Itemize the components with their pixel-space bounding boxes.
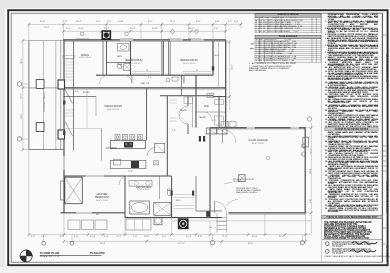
window break master bedroom south wall [76,212,92,213]
grid bubble left lower [17,137,29,141]
window schedule title band [255,14,321,17]
dark jambs west stair doors [63,101,66,136]
caption floor plan title [40,251,60,255]
porch dark post on house side lower [58,130,65,139]
window sill west wall [63,56,75,59]
wall: top exterior (heavy) [63,40,225,42]
dimension line: top secondary [63,30,225,32]
bath fixtures: vanity with sink [118,44,130,52]
master bath vanity two sinks [129,181,152,187]
porch dark post on house side upper [58,80,65,89]
door tag circle east wall 1 [302,144,306,148]
wall: east wing hall south [160,95,213,97]
dishwasher box [114,159,121,165]
door arc: garage entry from mudroom [223,130,237,144]
wall: south of bath block [125,217,222,219]
window schedule title [255,14,321,16]
window tag hexagon top wall [125,32,129,36]
north arrow symbol [19,249,33,263]
small diamond equipment box [154,217,162,225]
pantry east wall with door opening [187,96,189,134]
notes lower section header band [322,215,383,219]
grid bubble bottom A [42,235,46,246]
window breaks top wall [120,39,204,40]
notes column mid section text [325,131,379,212]
attic fan dark square symbol [102,31,111,40]
window sill marks on top wall [76,38,201,40]
pantry shelf lines [170,100,178,121]
dim text top row [76,21,82,23]
room label bedroom 2 [121,59,147,65]
wall: porch top thin extension [29,40,64,42]
room label laundry [199,117,206,119]
door schedule grid [255,39,321,63]
wall: kitchen east [166,96,168,176]
stair treads west vestibule [65,59,73,116]
dark door jamb garage sw [206,211,209,217]
title strip separator line [381,13,383,262]
door leaf diagonal in west vestibule (lower) [65,122,73,137]
wall: master suite north [64,175,172,177]
caption plan number [90,251,105,255]
title strip rotated text upper [386,22,389,82]
window box on garage east wall [303,137,309,147]
notes lower section divider line [322,239,383,241]
notes column upper header text [325,128,379,131]
wall: garage north (heavy) [210,128,306,129]
signature item 1 squiggle [352,242,377,245]
laundry keyed note text [233,179,257,183]
bedroom2 closet east wall pair [168,41,170,75]
door arc: garage person door [215,202,227,213]
dimension ticks right [310,127,313,215]
steps below bath block [126,219,151,230]
laundry sink box [207,93,214,97]
wall: west exterior outer line [63,40,65,213]
wall: corridor north (bedroom fronts) [96,74,213,76]
signature item 2 squiggle [350,250,376,253]
patio boxes below master bedroom [68,220,107,230]
porch: bottom edge [29,149,64,151]
wall: kitchen west partial [101,129,103,161]
dark door jamb pair 1 (bath entry) [171,191,173,196]
grid bubble left upper [17,82,29,86]
refrigerator box with diagonal [155,143,165,152]
bath fixtures: shower with X lower [124,64,131,71]
kitchen sink small [153,161,158,165]
leader line garage note [227,199,238,205]
AC condenser dark square (concentric) [178,218,189,229]
room label bedroom 3 [176,59,202,65]
door arc: laundry [204,112,212,120]
wall: west vestibule inner line [73,41,75,150]
door tag circle east wing [307,117,311,121]
signature item 2 text [332,249,372,255]
dimension line: right vertical [306,123,312,235]
dim text right [310,168,312,174]
kitchen south counter [110,160,145,168]
bath fixtures: toilet lower [118,63,122,69]
wall: mudroom west lower [195,176,197,211]
room label master bath [135,187,153,191]
closet boxes at pantry top [184,97,193,104]
dim text bottom row [41,236,47,238]
dark door jambs at stair/mud [199,136,205,142]
caption scale text [40,256,60,258]
range dark box on south counter [131,161,139,168]
wall: garage south (heavy) [229,213,306,214]
door tag circle east wall 2 [302,152,306,156]
wall: long mid horizontal (corridor south) [63,88,225,89]
door jamb marks bedroom3 [212,66,214,70]
window breaks garage north wall [247,127,299,128]
fireplace hatched box on west wall [61,177,83,204]
dimension ticks upper-right [228,41,231,98]
window schedule grid [255,17,321,33]
notes column upper section text [325,13,379,127]
door schedule title band [255,35,321,38]
kitchen peninsula arc [147,148,155,156]
window tag circles top wall extra [80,30,198,36]
garage floor drain circle [266,156,269,159]
wall: foyer lower horizontal [63,95,96,97]
door leaf diagonal in west vestibule (upper) [65,90,73,104]
kitchen island counter [110,140,145,148]
mudroom bench boxes [215,100,224,126]
lower owner paragraph text [324,222,376,241]
wall: hall bath east [171,176,173,218]
dimension line: top primary [29,22,241,41]
interior dim marks [75,91,79,93]
room label w/d [204,105,209,108]
schedule footnote 1 [249,63,296,65]
wall: garage west vertical [209,128,211,218]
wall: bath inner horizontal [107,62,131,64]
wall: mud hall east [218,96,220,128]
dim text left [21,58,23,64]
washer dryer boxes [207,128,228,134]
porch post lower [36,123,44,132]
door schedule row text [255,39,320,62]
lower band header text [322,216,383,219]
window schedule row text [255,17,320,32]
laundry south jog line [205,133,228,135]
kitchen north counter edge faint [64,128,102,130]
page margin shading bottom [0,267,390,273]
equipment boxes at garage north entry [221,122,236,128]
water heater box with X in garage [239,175,245,182]
wall: foyer chase double vertical [103,41,107,75]
room label great room [100,105,126,111]
wall: laundry west vertical [195,75,197,127]
window break great room west wall [64,156,65,170]
grid bubble bottom D [300,235,304,245]
porch: deck line 1 [43,41,45,150]
dimension line: left vertical [23,41,29,150]
wall: east exterior upper [225,40,227,128]
notes column left boundary line [321,13,323,262]
hall bath fixtures east wing [166,75,181,96]
room label master bedroom [88,193,116,202]
water closet wall [159,176,161,199]
page margin shading left [0,0,5,273]
porch post upper [36,80,44,89]
title strip rotated text lower [386,173,389,213]
caption underline [40,254,102,256]
window tag circle 2 [171,30,175,34]
porch label vertical [44,93,46,112]
schedule footnote 2 [249,66,293,72]
porch: deck line 2 [55,41,57,150]
signature item 1 text [332,242,372,248]
wall: bath east vertical [130,41,132,75]
wall: kitchen great-room divider [146,88,148,141]
porch east edge line [60,40,62,150]
wall: step master bedroom south [124,213,126,218]
pantry east inner line [192,96,194,128]
pantry double doors [179,106,188,124]
dimension line: bottom secondary [64,240,306,242]
hall room tag [141,83,149,85]
grid bubble bottom B [70,235,74,246]
wall: mudroom divider horizontal [196,111,226,113]
signature item 2 bullet circle [326,250,330,254]
patio door opening in master suite north wall [86,176,104,177]
fine print line bottom right [324,256,380,258]
extra dim text blobs [40,21,45,23]
signature item 1 bullet circle [326,242,330,246]
wall: hall bath west [124,176,126,213]
foyer stair edge vertical [95,96,97,116]
door arc: bedroom2 entry [124,75,132,83]
wall: garage east vertical (heavy) [304,128,306,214]
porch: left edge vertical [28,41,30,150]
title strip divider ticks [382,35,386,244]
room label kitchen [106,147,117,150]
dark door jamb pair 2 (wic entry) [192,191,194,196]
wic shelving lines [174,195,195,209]
room label garage [243,139,273,145]
closet lines bedroom3 [183,72,211,74]
garage keyed note text [236,188,262,194]
grid bubble bottom C [210,235,214,245]
master bath tub oval [130,201,150,214]
room label dining [76,55,94,59]
wall: mudroom south [196,210,222,212]
door arc: bedroom3 entry [176,75,184,83]
wall: bedroom divider vertical [162,41,164,75]
kitchen island stools [115,134,142,139]
master bath shower with X [154,202,171,215]
dimension ticks left [22,39,25,151]
apron line below garage [172,220,311,222]
closet lines bedroom2 [132,72,160,74]
island cooktop dark box [124,142,133,148]
notes upper section header band [325,127,379,130]
door arc: master bedroom entry [119,176,128,185]
dimension ticks bottom [28,233,307,242]
room label wic [176,200,182,202]
page margin shading top [0,0,390,8]
dimension line: upper-right vertical [226,42,230,110]
wall: bedroom3 east vertical [212,41,214,75]
leader line laundry note [224,182,232,184]
closet shelf line east wing [218,41,220,88]
porch: mid rail [29,87,63,89]
exterior steps at garage person door [217,214,227,233]
door arc bath upper [115,63,122,70]
door arc foyer [100,75,109,84]
wall: step at east wing [213,96,226,98]
closet label [146,70,148,72]
door schedule title [255,36,321,38]
great room case opening edge [86,89,88,128]
title strip rotated sheet id [386,231,389,261]
dimension line: bottom primary [29,150,311,242]
dimension ticks top [28,23,243,32]
door schedule left pointer marks [250,43,254,50]
wall: south of master bedroom [61,212,126,214]
master bath toilet [167,189,171,196]
